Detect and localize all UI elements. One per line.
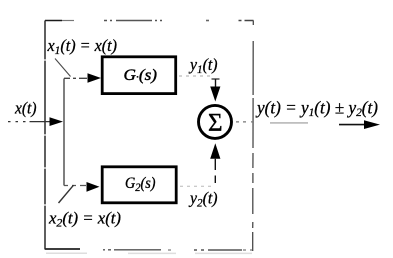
svg-text:G·(s): G·(s) [124,67,158,84]
svg-text:Σ: Σ [208,110,223,137]
svg-text:G2(s): G2(s) [125,175,156,194]
svg-text:x(t): x(t) [14,99,37,118]
svg-text:y2(t): y2(t) [188,189,218,210]
svg-text:y1(t): y1(t) [188,55,218,76]
